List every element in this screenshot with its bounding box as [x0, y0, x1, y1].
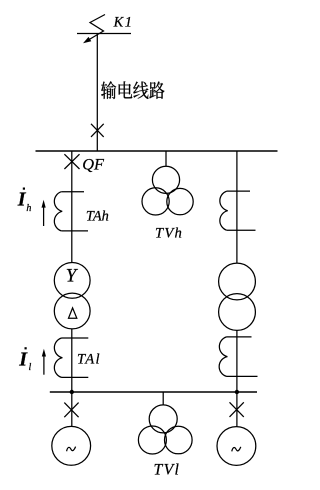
svg-text:I: I: [17, 189, 27, 211]
svg-text:I: I: [18, 348, 28, 370]
generator left tilde: [67, 447, 76, 452]
svg-text:K1: K1: [113, 15, 134, 31]
current arrow Ih: [43, 206, 45, 227]
circuit breaker QF X: [64, 154, 79, 169]
right winding lower: [227, 336, 252, 338]
breaker X left lower: [64, 403, 78, 418]
transformer T1 HV winding circle: [54, 263, 90, 299]
wire: transmission line vertical: [96, 34, 98, 152]
top busbar: [36, 150, 278, 152]
transformer T1 LV winding circle: [54, 293, 90, 329]
right transformer LV circle: [219, 294, 256, 331]
fault lightning arrow K1: [88, 15, 106, 41]
breaker X right lower: [230, 402, 244, 417]
lower busbar: [50, 391, 257, 393]
right transformer HV circle: [219, 263, 256, 300]
svg-text:QF: QF: [82, 154, 105, 173]
svg-text:Y: Y: [66, 266, 79, 287]
svg-text:h: h: [26, 203, 31, 214]
label: 输电线路 (transmission line): [101, 81, 165, 99]
generator right tilde: [232, 447, 241, 452]
current transformer TAl: [62, 337, 89, 339]
terminal stub line: [77, 33, 131, 35]
junction dot right: [235, 390, 239, 394]
junction dot left: [70, 390, 74, 394]
wire: left generator drop: [71, 392, 73, 427]
wire: right transformer to lower bus: [236, 330, 238, 392]
wire: transformer to lower bus: [71, 329, 73, 392]
voltage transformer TVh circles: [152, 166, 179, 193]
wire: right branch: [236, 151, 238, 263]
generator left circle: [52, 426, 91, 465]
transformer delta symbol: [69, 308, 77, 318]
wire: TVl stub: [162, 392, 164, 405]
right winding upper: [227, 190, 250, 192]
svg-text:TVl: TVl: [154, 461, 181, 478]
svg-text:TVh: TVh: [155, 225, 183, 241]
wire: TVh stub: [165, 151, 167, 166]
current transformer TAh: [61, 191, 84, 193]
wire: right generator drop: [236, 392, 238, 427]
wire: left branch upper: [71, 151, 73, 263]
current arrow Il: [43, 355, 45, 375]
generator right circle: [217, 427, 256, 466]
fault point X on transmission line: [91, 124, 104, 137]
svg-text:TAl: TAl: [77, 351, 101, 367]
voltage transformer TVl circles: [149, 405, 177, 433]
svg-text:l: l: [29, 362, 32, 373]
svg-text:TAh: TAh: [86, 209, 109, 225]
